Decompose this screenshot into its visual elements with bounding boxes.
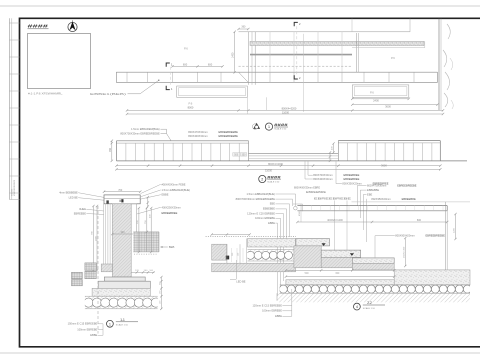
svg-text:100mm EBREBE: 100mm EBREBE xyxy=(255,216,275,220)
elevation stacked dims left of right band xyxy=(329,153,331,161)
1-1 right dim verticals xyxy=(138,208,140,252)
plan grid verticals xyxy=(269,32,271,72)
svg-text:800X470X30mm: 800X470X30mm xyxy=(188,130,207,134)
svg-text:EBREEBREEBE: EBREEBREEBE xyxy=(426,234,446,238)
elevation title bubble xyxy=(259,175,266,182)
svg-text:150: 150 xyxy=(238,253,240,256)
2-2 niche small dims xyxy=(231,248,233,262)
svg-text:400X250X30mm: 400X250X30mm xyxy=(162,205,181,209)
elevation left height dim xyxy=(111,141,113,161)
svg-text:11000: 11000 xyxy=(265,169,273,173)
elevation left leader lines xyxy=(161,128,167,130)
svg-text:4mm BEBBEBE: 4mm BEBBEBE xyxy=(59,191,78,195)
plan upper-right wall lines xyxy=(409,19,411,32)
plan right boundary wall xyxy=(438,19,440,110)
plan title bubble xyxy=(265,123,272,130)
2-2 step block 2 xyxy=(321,257,352,267)
plan left vertical dim 1400 xyxy=(234,32,236,73)
2-2 long coping band xyxy=(297,205,447,207)
svg-text:EBREEBRE: EBREEBRE xyxy=(306,190,326,194)
1-1 gravel layer xyxy=(84,296,160,309)
svg-text:####: #### xyxy=(274,123,288,127)
1-1 centerline dashed xyxy=(97,206,99,334)
section mark 1 top xyxy=(166,63,170,67)
1-1 right leader lines xyxy=(141,184,161,193)
svg-text:1: 1 xyxy=(268,125,270,129)
elevation left band posts xyxy=(125,143,127,161)
svg-text:600: 600 xyxy=(208,62,213,66)
2-2 step block 1 xyxy=(294,246,321,268)
plan upper wall line xyxy=(239,31,411,33)
svg-text:360: 360 xyxy=(241,26,246,29)
plan hatched coping band xyxy=(250,41,424,45)
svg-text:SCALE 1:10: SCALE 1:10 xyxy=(363,307,376,310)
svg-text:XXXXXX: XXXXXX xyxy=(12,188,14,196)
1-1 left leader lines xyxy=(78,193,104,198)
svg-text:150mm E C15 EBREEBE: 150mm E C15 EBREEBE xyxy=(68,322,98,326)
elevation ground line xyxy=(117,160,468,162)
svg-text:2400: 2400 xyxy=(373,99,379,103)
svg-text:EBBE: EBBE xyxy=(268,221,275,225)
1-1 dim 760 xyxy=(104,191,140,193)
2-2 wall top dim xyxy=(212,234,250,236)
elevation left band xyxy=(117,140,249,142)
section mark 1 bottom xyxy=(166,86,170,90)
svg-text:1200: 1200 xyxy=(454,227,456,233)
svg-text:8000: 8000 xyxy=(188,106,194,110)
2-2 upper pavement speckle xyxy=(248,239,296,248)
1-1 footing step 1 xyxy=(104,277,145,281)
2-2 niche lines xyxy=(226,244,228,263)
plan planter right dims xyxy=(352,98,409,100)
elevation detail bubble xyxy=(252,124,258,130)
svg-text:SCALE 1:10: SCALE 1:10 xyxy=(116,324,129,327)
2-2 step dim lines xyxy=(286,269,394,271)
svg-text:1-1: 1-1 xyxy=(120,318,125,322)
2-2 band dim line xyxy=(297,221,447,223)
plan planter box right xyxy=(352,85,409,97)
svg-text:760: 760 xyxy=(118,189,123,192)
svg-text:2-2: 2-2 xyxy=(367,301,372,305)
elevation bottom leader lines xyxy=(308,161,313,175)
svg-text:EBREEBREEBE: EBREEBREEBE xyxy=(397,183,417,187)
svg-text:11000: 11000 xyxy=(282,110,290,114)
svg-text:EBREEBREEBE: EBREEBREEBE xyxy=(219,130,239,134)
sheet bottom edge line xyxy=(0,352,480,354)
2-2 right pavement upper xyxy=(394,270,470,285)
1-1 planting soil block xyxy=(133,232,159,252)
2-2 step tread 3 xyxy=(352,258,394,263)
2-2 step tread 2 xyxy=(321,250,361,257)
2-2 upper pavement gravel xyxy=(247,250,296,262)
1-1 cladding lines xyxy=(102,204,104,264)
svg-text:#HEE: #HEE xyxy=(79,207,86,211)
svg-text:800X700X30mm: 800X700X30mm xyxy=(313,173,332,177)
svg-text:SCALE 1:50: SCALE 1:50 xyxy=(274,127,287,130)
1-1 wall width dim 240 xyxy=(112,233,136,235)
2-2 gravel layer xyxy=(279,285,471,293)
svg-text:XXXXXXXXXXX: XXXXXXXXXXX xyxy=(14,179,16,196)
svg-text:250: 250 xyxy=(232,253,234,256)
plan dashed hidden line xyxy=(239,65,353,67)
svg-text:802X350X20mm: 802X350X20mm xyxy=(371,197,390,201)
svg-text:3600: 3600 xyxy=(385,104,391,108)
1-1 handrail posts xyxy=(121,199,123,202)
svg-text:EBE: EBE xyxy=(367,192,372,196)
1-1 footing step 2 xyxy=(98,281,150,288)
section cut line 2 xyxy=(296,26,298,75)
svg-text:EBBE: EBBE xyxy=(90,333,97,337)
1-1 upper right small dim xyxy=(147,197,149,206)
svg-text:P.6: P.6 xyxy=(391,56,395,60)
1-1 wall body xyxy=(112,204,131,277)
elevation right band xyxy=(338,140,440,142)
1-1 bottom right dims xyxy=(160,277,162,309)
svg-text:120mm E C20 EBREBE: 120mm E C20 EBREBE xyxy=(247,211,275,215)
elevation dim line 3200 xyxy=(117,165,441,167)
svg-text:EBREEBREE: EBREEBREE xyxy=(162,211,178,215)
svg-text:EBREEBREEBE: EBREEBREEBE xyxy=(219,134,239,138)
1-1 cladding footing hatch xyxy=(101,264,112,272)
svg-text:EBBE: EBBE xyxy=(162,193,169,197)
svg-text:4: 4 xyxy=(356,305,358,309)
plan corner verticals xyxy=(247,32,249,85)
plan wall band xyxy=(116,71,437,73)
svg-text:800X470X30mm: 800X470X30mm xyxy=(367,183,386,187)
svg-text:SCALE 1:50: SCALE 1:50 xyxy=(267,180,280,183)
svg-text:800X400X30mm EBRE: 800X400X30mm EBRE xyxy=(294,186,320,190)
title strip cell dividers xyxy=(9,22,19,24)
svg-text:100mm EBREBE: 100mm EBREBE xyxy=(262,309,282,313)
svg-text:1: 1 xyxy=(109,322,111,326)
plan band corner chamfer xyxy=(239,72,249,82)
svg-text:100mm EBREBE: 100mm EBREBE xyxy=(77,327,97,331)
svg-text:EBBE1(BEB): EBBE1(BEB) xyxy=(90,92,126,96)
plan title symbol xyxy=(253,123,260,129)
svg-text:1.5mm EBBHREM(BHE): 1.5mm EBBHREM(BHE) xyxy=(246,192,275,196)
svg-text:####: #### xyxy=(28,23,50,28)
svg-text:1.5mm EBBHREM(BHE): 1.5mm EBBHREM(BHE) xyxy=(131,127,160,131)
2-2 planter wall hatch xyxy=(212,244,227,260)
svg-text:120mm E C15 EBREEBE: 120mm E C15 EBREEBE xyxy=(252,303,282,307)
2-2 planter wall dotted top xyxy=(206,235,296,237)
svg-text:800X400X30mm: 800X400X30mm xyxy=(313,177,332,181)
plan dim extension verticals xyxy=(246,97,248,114)
2-2 tread rise dim xyxy=(319,247,321,259)
svg-text:800X350X20mm: 800X350X20mm xyxy=(342,181,361,185)
svg-text:600: 600 xyxy=(417,219,422,222)
svg-text:#:1-1.P.6 XFSWHHMRL.: #:1-1.P.6 XFSWHHMRL. xyxy=(28,92,63,96)
section cut line 1 xyxy=(169,67,171,86)
2-2 lower hatch block xyxy=(212,263,296,272)
svg-text:EBREEBRE: EBREEBRE xyxy=(402,197,416,201)
elevation boxed dims 500 350 xyxy=(233,153,240,157)
svg-text:####: #### xyxy=(267,175,281,179)
plan mid gray line xyxy=(250,54,352,56)
2-2 right dim 150X2=300 xyxy=(404,238,406,266)
section mark 2 top xyxy=(294,22,298,26)
svg-text:400X2h=1200: 400X2h=1200 xyxy=(327,219,343,222)
svg-text:EBREEBREE: EBREEBREE xyxy=(344,173,360,177)
svg-text:1400: 1400 xyxy=(232,52,235,58)
section mark 2 bottom xyxy=(294,75,298,79)
1-1 bottom dim row xyxy=(131,271,154,273)
2-2 bracket xyxy=(293,204,302,211)
svg-text:800X4=3200: 800X4=3200 xyxy=(268,162,283,166)
title strip column lines xyxy=(8,18,10,199)
svg-text:800X700X30mm EBREEBREEBE: 800X700X30mm EBREEBREEBE xyxy=(120,132,160,136)
north arrow xyxy=(68,22,77,31)
plan long extension line xyxy=(303,34,305,112)
svg-text:240: 240 xyxy=(121,231,126,234)
2-2 right end verticals xyxy=(444,202,446,270)
2-2 title bubble xyxy=(354,303,361,310)
2-2 mid leader verticals xyxy=(334,201,336,253)
svg-text:LED BE: LED BE xyxy=(69,196,78,200)
svg-text:EBBEBBE: EBBEBBE xyxy=(263,207,275,211)
svg-text:EBREEBREE: EBREEBREE xyxy=(344,177,360,181)
elevation middle low wall xyxy=(249,153,339,155)
elevation right band posts xyxy=(347,143,349,161)
svg-text:P.6: P.6 xyxy=(370,90,374,94)
plan 360 dim xyxy=(239,28,249,30)
plan planter box left xyxy=(177,86,248,97)
svg-text:1580: 1580 xyxy=(95,235,97,241)
plan bottom dim line 11000 xyxy=(127,113,443,115)
1-1 left dim verticals xyxy=(92,206,94,271)
svg-text:2: 2 xyxy=(261,178,263,182)
svg-text:EBBEBBE: EBBEBBE xyxy=(367,188,379,192)
svg-text:EBBE: EBBE xyxy=(275,314,282,318)
2-2 band left end detail xyxy=(294,206,298,210)
svg-text:150X2=300: 150X2=300 xyxy=(403,246,405,258)
index plan title underline xyxy=(28,28,49,30)
plan bottom dim line 8000 xyxy=(127,109,443,111)
2-2 right label leader lines xyxy=(357,185,366,187)
svg-text:#50X40X3mm FEBE: #50X40X3mm FEBE xyxy=(162,182,186,186)
elevation dim line 11000 xyxy=(117,168,441,170)
svg-text:3600: 3600 xyxy=(381,163,387,167)
svg-text:P.6: P.6 xyxy=(189,102,193,106)
1-1 wall face line xyxy=(136,204,138,232)
svg-text:BEB: BEB xyxy=(169,245,175,249)
svg-text:800X90X420mm: 800X90X420mm xyxy=(395,234,414,238)
plan band joints xyxy=(126,72,128,82)
2-2 left label leader lines xyxy=(276,193,296,195)
plan 600 dims xyxy=(173,65,223,67)
svg-text:EBREEBREBE: EBREEBREBE xyxy=(314,197,352,201)
2-2 lower concrete pad xyxy=(286,280,394,285)
landscape arcs xyxy=(443,50,447,67)
2-2 step block 3 xyxy=(352,263,394,270)
sheet top edge line xyxy=(0,5,480,7)
svg-text:P.6: P.6 xyxy=(184,46,188,50)
svg-text:EBREEBE: EBREEBE xyxy=(74,211,87,215)
svg-text:600: 600 xyxy=(183,62,188,66)
1-1 title bubble xyxy=(107,320,114,327)
svg-text:1.5mm EBBHREM(BHE): 1.5mm EBBHREM(BHE) xyxy=(162,188,191,192)
2-2 far right dim xyxy=(455,214,457,239)
plan double vertical wall edge xyxy=(355,33,357,72)
1-1 coping stone xyxy=(104,195,140,204)
elevation small dim 400 xyxy=(333,144,335,153)
svg-text:LED BE: LED BE xyxy=(236,279,245,283)
svg-text:800X4=3200: 800X4=3200 xyxy=(282,107,297,111)
1-1 concrete pad xyxy=(92,288,150,296)
svg-text:800X400X30mm: 800X400X30mm xyxy=(188,134,207,138)
svg-text:800X700X30mm EBREEBREEBE: 800X700X30mm EBREEBREEBE xyxy=(236,197,276,201)
2-2 led fixture xyxy=(226,256,229,260)
svg-text:780: 780 xyxy=(109,147,112,152)
2-2 earth hatch xyxy=(277,293,470,302)
svg-text:EBE: EBE xyxy=(270,202,275,206)
2-2 led label xyxy=(236,260,238,279)
2-2 upper horizontal line xyxy=(352,201,471,203)
2-2 step tread 1 xyxy=(296,239,330,246)
1-1 left gravel blocks xyxy=(85,263,96,270)
index plan square xyxy=(28,34,91,89)
